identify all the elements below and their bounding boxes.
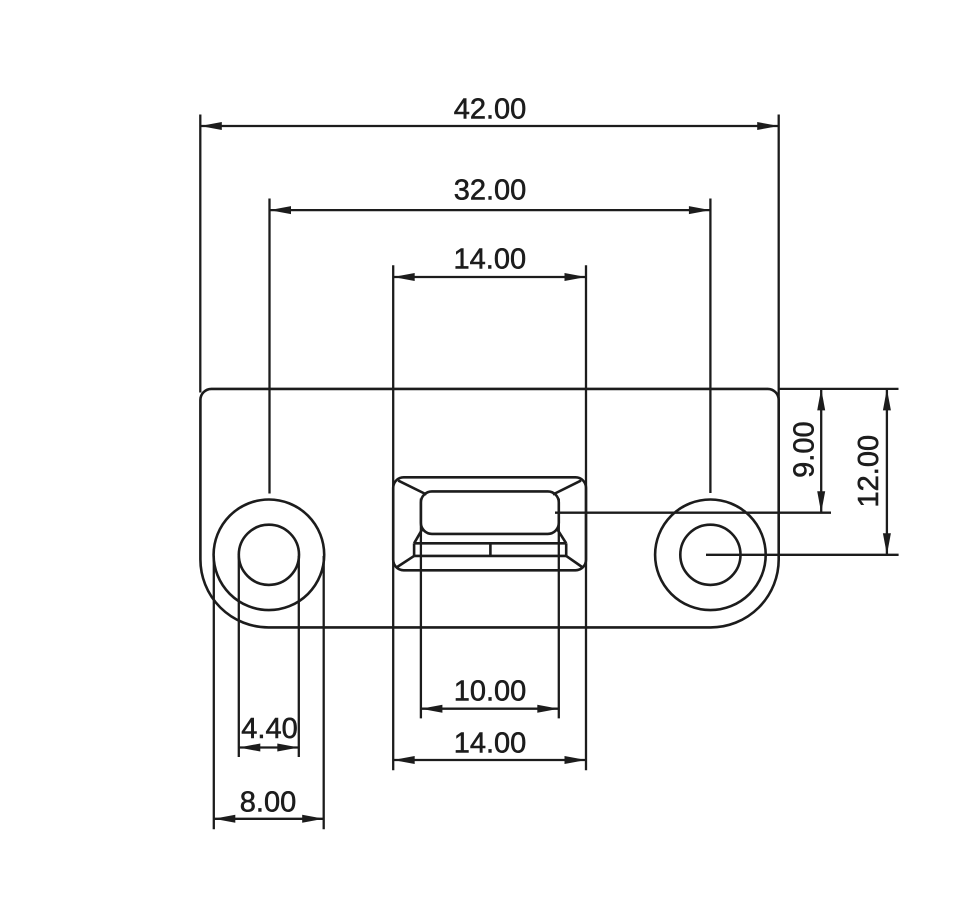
svg-text:42.00: 42.00 <box>454 94 527 126</box>
connector chamfer top-right <box>553 481 581 495</box>
connector outer shell <box>393 477 586 570</box>
dimension 8.00 <box>214 556 324 829</box>
right boss circle <box>655 500 766 611</box>
dimension 42.00 <box>200 94 778 405</box>
svg-text:10.00: 10.00 <box>454 676 527 708</box>
svg-text:12.00: 12.00 <box>853 435 885 508</box>
dimension 32.00 <box>270 175 711 494</box>
svg-text:4.40: 4.40 <box>241 713 297 745</box>
svg-text:32.00: 32.00 <box>454 175 527 207</box>
left boss circle <box>214 500 325 611</box>
svg-text:8.00: 8.00 <box>240 786 296 818</box>
top edge extension line <box>779 388 899 390</box>
dimension 4.40 <box>239 556 299 757</box>
left hole circle <box>239 525 299 585</box>
dimension 9.00 <box>789 389 826 513</box>
svg-text:9.00: 9.00 <box>789 421 821 477</box>
dimension 10.00 <box>421 499 559 719</box>
connector chamfer top-left <box>398 481 426 495</box>
svg-text:14.00: 14.00 <box>454 727 527 759</box>
body outline <box>200 389 778 628</box>
connector tongue center divider <box>489 543 492 556</box>
dimension 14.00 bottom <box>393 727 586 764</box>
connector chamfer bottom-left-lower <box>397 556 414 567</box>
dimension 14.00 top <box>393 243 586 770</box>
connector chamfer bottom-right-upper <box>557 529 566 543</box>
dimension 12.00 <box>853 389 891 555</box>
svg-text:14.00: 14.00 <box>454 243 527 275</box>
connector chamfer bottom-right-lower <box>566 556 582 567</box>
connector chamfer bottom-left-upper <box>414 529 422 543</box>
hole centerline leader <box>706 554 899 556</box>
connector inner opening <box>421 491 559 534</box>
connector centerline leader <box>555 512 831 514</box>
right hole circle <box>680 525 740 585</box>
connector tongue band <box>414 543 566 556</box>
